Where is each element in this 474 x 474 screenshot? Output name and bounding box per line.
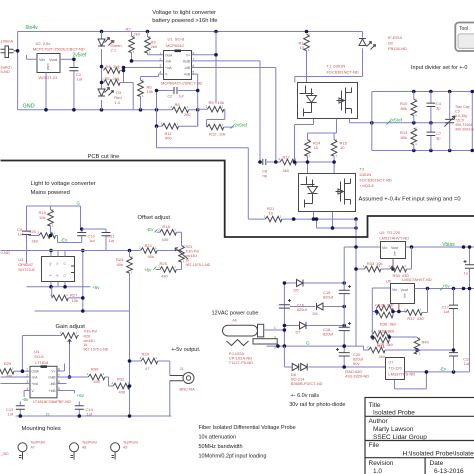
svg-text:1uf: 1uf: [77, 77, 83, 82]
svg-text:V+: V+: [52, 370, 56, 374]
svg-text:R37: R37: [407, 316, 415, 321]
svg-text:2k0: 2k0: [113, 64, 120, 69]
svg-text:T2: T2: [360, 167, 365, 172]
svg-text:430: 430: [161, 274, 168, 279]
capacitor C7: [430, 123, 432, 151]
wire T2 bottom row 1: [248, 212, 356, 220]
wire U4 pin2 pin3 long runs: [1, 377, 31, 384]
svg-text:Offset adjust: Offset adjust: [138, 215, 171, 221]
svg-text:Gain adjust: Gain adjust: [56, 324, 86, 330]
svg-text:1.4: 1.4: [114, 100, 120, 105]
svg-text:3k0: 3k0: [389, 322, 396, 327]
capacitor C8: [260, 161, 280, 163]
op-amp U4: [30, 366, 57, 398]
diode D5: [284, 282, 344, 284]
svg-text:-InB: -InB: [184, 66, 190, 70]
svg-text:FDC6301NCT-ND: FDC6301NCT-ND: [360, 178, 392, 183]
capacitor C9: [26, 206, 28, 264]
resistor R11: [162, 123, 179, 129]
svg-text:R30: R30: [91, 367, 99, 372]
svg-text:2k0: 2k0: [113, 76, 120, 81]
capacitor C10: [81, 228, 83, 243]
resistor R25: [160, 267, 177, 273]
capacitor C14: [78, 402, 80, 417]
wire +6v rail: [415, 288, 474, 290]
svg-text:1.0: 1.0: [373, 468, 382, 474]
svg-text:967-1575-1-ND: 967-1575-1-ND: [186, 263, 211, 267]
svg-text:+InA: +InA: [32, 382, 40, 386]
svg-text:-Ev: -Ev: [439, 367, 447, 372]
svg-text:Tool: Tool: [459, 26, 468, 32]
svg-text:2.1: 2.1: [111, 48, 117, 53]
svg-text:LM317AHVT-ND: LM317AHVT-ND: [402, 277, 432, 282]
wire raw+ vertical with caps: [343, 247, 345, 367]
svg-text:G: G: [46, 412, 50, 417]
svg-text:1uf: 1uf: [89, 238, 95, 243]
capacitor C11: [82, 229, 106, 251]
mounting hole TP1: [18, 443, 27, 460]
resistor R40: [414, 338, 420, 355]
svg-text:80k: 80k: [401, 106, 407, 111]
svg-text:2: 2: [160, 58, 162, 62]
svg-text:+6v: +6v: [442, 284, 450, 289]
resistor R18: [160, 230, 177, 236]
svg-text:8.5-30p: 8.5-30p: [455, 114, 467, 118]
svg-text:D2: D2: [388, 41, 394, 46]
svg-text:GND: GND: [46, 64, 50, 72]
svg-text:SOT23-8: SOT23-8: [18, 267, 35, 272]
svg-text:GND: GND: [23, 104, 35, 110]
wire U4 pin6 pin5: [57, 384, 75, 394]
resistor R15: [331, 140, 337, 157]
svg-text:T1 6301N: T1 6301N: [327, 64, 346, 69]
regulator U2: [27, 54, 61, 110]
svg-text:1uf: 1uf: [8, 412, 14, 417]
svg-text:3k0: 3k0: [388, 328, 395, 333]
transistor T1 dual fet: [298, 83, 358, 119]
capacitor C19: [453, 356, 455, 372]
svg-text:3p: 3p: [436, 106, 441, 111]
wire R22 row: [1, 250, 182, 252]
svg-text:10: 10: [300, 45, 305, 50]
resistor R41: [369, 347, 386, 353]
svg-text:R17: R17: [283, 155, 291, 160]
svg-text:Marty Lawson: Marty Lawson: [373, 426, 414, 433]
svg-text:R22: R22: [145, 243, 153, 248]
svg-text:490-2003-ND: 490-2003-ND: [455, 128, 474, 132]
regulator U6: [372, 288, 390, 312]
svg-text:U1 SO-8: U1 SO-8: [168, 37, 185, 42]
svg-text:+-5v output.: +-5v output.: [171, 347, 201, 353]
svg-text:LT1818CS8#PBF-ND: LT1818CS8#PBF-ND: [33, 399, 71, 404]
svg-text:80k: 80k: [401, 135, 407, 140]
svg-text:OutB: OutB: [48, 376, 55, 380]
svg-text:430: 430: [417, 316, 424, 321]
svg-text:R29: R29: [4, 361, 12, 366]
svg-text:2v5ref: 2v5ref: [73, 53, 88, 59]
svg-text:400: 400: [94, 379, 101, 384]
svg-text:V-: V-: [32, 389, 35, 393]
resistor R37: [406, 310, 423, 316]
svg-text:TestPoint: TestPoint: [31, 441, 46, 445]
svg-text:+6v: +6v: [144, 268, 152, 273]
connector J1 BNC: [170, 373, 194, 384]
svg-text:1uf: 1uf: [179, 95, 184, 99]
svg-text:10Mohm/0.2pf input loading: 10Mohm/0.2pf input loading: [199, 453, 267, 459]
svg-text:-Ev: -Ev: [147, 227, 155, 232]
svg-text:R9: R9: [209, 100, 215, 105]
svg-text:10k: 10k: [219, 132, 225, 137]
svg-text:R25: R25: [160, 261, 168, 266]
tool window: [455, 23, 474, 52]
svg-text:3k0: 3k0: [387, 303, 394, 308]
svg-text:+- 6.0v rails: +- 6.0v rails: [291, 393, 320, 399]
svg-text:Author: Author: [369, 418, 389, 425]
svg-text:90k: 90k: [117, 262, 123, 267]
svg-text:Trim Cap: Trim Cap: [455, 105, 470, 109]
svg-text:-InA: -InA: [165, 60, 172, 64]
svg-text:R5: R5: [105, 76, 111, 81]
svg-text:FB134-ND: FB134-ND: [388, 46, 407, 51]
svg-text:cm44U: cm44U: [186, 254, 198, 258]
wire long left vertical: [129, 311, 131, 416]
svg-text:TestPoint: TestPoint: [82, 441, 97, 445]
svg-text:PCB cut line: PCB cut line: [88, 154, 120, 160]
resistor R6: [138, 80, 144, 97]
svg-text:30v rail for photo-diode: 30v rail for photo-diode: [289, 402, 345, 408]
svg-text:1u: 1u: [464, 271, 468, 276]
wire divider bottom bus: [372, 150, 474, 152]
svg-text:7ZC3: 7ZC3: [455, 119, 464, 123]
wire Vbias rail: [406, 246, 474, 248]
svg-text:90k: 90k: [148, 254, 154, 259]
resistor R24: [127, 257, 133, 274]
svg-text:np: np: [263, 173, 268, 178]
capacitor C20: [336, 348, 350, 356]
svg-text:+vlQ3-8: +vlQ3-8: [360, 183, 375, 188]
svg-text:Mains powered: Mains powered: [31, 190, 70, 196]
trim capacitor C5: [449, 92, 451, 151]
svg-text:3k0: 3k0: [386, 342, 393, 347]
svg-text:Assumed +-0.4v Fet input swing: Assumed +-0.4v Fet input swing and =0: [359, 197, 461, 203]
svg-text:MCP6042: MCP6042: [166, 43, 185, 48]
svg-text:1uf: 1uf: [109, 238, 115, 243]
resistor R33: [364, 266, 381, 272]
svg-text:U6: U6: [386, 279, 392, 284]
svg-text:T1127-P5-ND: T1127-P5-ND: [229, 360, 253, 365]
svg-text:820uf: 820uf: [297, 307, 308, 312]
svg-text:Isolated Probe: Isolated Probe: [373, 410, 415, 417]
svg-text:A8: A8: [82, 446, 86, 450]
regulator U5: [344, 246, 380, 248]
resistor R5: [104, 80, 121, 86]
svg-text:3k0: 3k0: [283, 168, 290, 173]
svg-text:R20: R20: [29, 229, 37, 234]
connector J2 sleeve: [253, 339, 277, 344]
svg-text:Vin: Vin: [39, 57, 45, 62]
svg-text:430: 430: [162, 237, 169, 242]
capacitor C15: [339, 285, 351, 294]
svg-text:430: 430: [119, 390, 126, 395]
svg-text:10k: 10k: [376, 261, 382, 266]
wire U4 pin4: [24, 391, 30, 398]
svg-text:+InB: +InB: [49, 389, 56, 393]
svg-text:10: 10: [340, 145, 345, 150]
svg-text:G: G: [306, 341, 310, 346]
dual diode D8: [284, 346, 385, 367]
mounting hole TP2: [70, 443, 79, 460]
LED D1: [98, 38, 114, 47]
svg-text:1k: 1k: [186, 259, 190, 263]
svg-text:adj: adj: [403, 294, 407, 298]
capacitor C21: [464, 260, 474, 268]
wire U3 right vertical: [82, 251, 84, 312]
LED D2 infrared: [295, 32, 363, 83]
capacitor C4: [430, 92, 432, 123]
svg-text:50MHz bandwidth: 50MHz bandwidth: [199, 444, 243, 450]
resistor R17: [280, 159, 297, 165]
svg-text:LM317AHVT-ND: LM317AHVT-ND: [379, 236, 409, 241]
regulator U7: [386, 358, 405, 380]
capacitor C16: [279, 299, 291, 308]
svg-text:Fiber Isolated Differential Vo: Fiber Isolated Differential Voltage Prob…: [199, 425, 296, 431]
svg-text:SSEC Lidar Group: SSEC Lidar Group: [373, 434, 427, 441]
svg-text:R23: R23: [186, 245, 193, 249]
wire long run to section 2: [157, 126, 249, 219]
capacitor C13: [19, 402, 21, 417]
svg-text:+6v: +6v: [92, 285, 100, 290]
resistor R2: [129, 36, 135, 53]
wire GND bus: [18, 109, 198, 111]
resistor R28: [141, 358, 158, 364]
svg-text:-6v: -6v: [22, 397, 29, 402]
svg-text:C2: C2: [168, 95, 173, 99]
transistor T2 dual fet: [299, 174, 356, 212]
svg-text:D6: D6: [313, 311, 319, 316]
capacitor C18: [339, 322, 351, 331]
svg-text:OutA: OutA: [165, 54, 173, 58]
svg-text:Mounting holes: Mounting holes: [22, 426, 61, 432]
wire +6v rail under U3: [27, 282, 91, 287]
svg-text:V+: V+: [186, 54, 190, 58]
svg-text:1uf: 1uf: [443, 309, 449, 314]
wire top bus: [18, 31, 363, 33]
svg-text:_250: _250: [0, 452, 9, 456]
wire jack pin 1: [264, 283, 285, 346]
svg-text:R8: R8: [175, 102, 181, 107]
svg-text:MCP6042T-I/SNCT-ND: MCP6042T-I/SNCT-ND: [161, 81, 202, 86]
svg-text:-InA: -InA: [32, 376, 39, 380]
svg-text:File: File: [369, 442, 380, 449]
12VAC wall cube drawing: [223, 324, 264, 345]
svg-text:R12: R12: [209, 132, 217, 137]
svg-text:-InB: -InB: [50, 382, 56, 386]
svg-text:Vout: Vout: [391, 246, 398, 250]
svg-text:R34: R34: [393, 273, 401, 278]
wire G rail power: [267, 346, 364, 350]
svg-text:3k0: 3k0: [379, 354, 386, 359]
svg-text:U2 2.5v: U2 2.5v: [36, 41, 51, 46]
svg-text:R35: R35: [378, 303, 386, 308]
resistor R20: [39, 233, 56, 239]
resistor R39: [373, 337, 390, 343]
svg-text:C5: C5: [455, 110, 460, 114]
svg-text:2n: 2n: [49, 263, 53, 267]
svg-text:490-T1504: 490-T1504: [455, 123, 472, 127]
resistor R21: [265, 216, 282, 222]
resistor R35: [377, 305, 394, 311]
svg-text:U7: U7: [388, 360, 394, 365]
svg-text:2k0: 2k0: [134, 32, 141, 37]
svg-text:D5: D5: [294, 288, 300, 293]
svg-text:A7: A7: [31, 446, 35, 450]
resistor R14: [305, 140, 311, 157]
svg-text:Vout: Vout: [401, 288, 408, 292]
resistor R19: [48, 210, 54, 227]
svg-text:6-13-2016: 6-13-2016: [434, 468, 464, 474]
junctions on top bus: [100, 30, 104, 34]
trim pot R26: [61, 333, 78, 339]
svg-text:2v5ref: 2v5ref: [235, 123, 248, 128]
title block frame: [365, 398, 474, 474]
svg-text:Vbias: Vbias: [442, 242, 455, 248]
svg-text:R36: R36: [380, 322, 388, 327]
svg-text:IF-E910: IF-E910: [388, 35, 403, 40]
svg-text:493-1820-ND: 493-1820-ND: [345, 374, 369, 379]
svg-text:R32: R32: [117, 377, 125, 382]
svg-text:2k0: 2k0: [32, 239, 39, 244]
LED D3: [98, 88, 114, 97]
wire U6 adj: [398, 304, 400, 312]
battery connector B1: [1, 46, 18, 58]
wire T2 bottom row 2: [317, 212, 357, 229]
resistor R13: [411, 128, 417, 145]
svg-text:R41: R41: [378, 344, 386, 349]
capacitor C17: [453, 289, 455, 353]
wire opamp input rows: [124, 55, 164, 80]
wire divider top bus: [372, 91, 474, 93]
svg-text:D7: D7: [296, 330, 302, 335]
svg-text:10k: 10k: [39, 215, 45, 220]
svg-text:Vout: Vout: [49, 57, 58, 62]
svg-text:6301N: 6301N: [360, 172, 372, 177]
wire divider left vertical: [371, 92, 373, 151]
svg-text:6to4v: 6to4v: [26, 25, 39, 31]
svg-text:Voltage to light converter: Voltage to light converter: [152, 10, 216, 16]
wire T2 to U5 vertical: [355, 219, 357, 346]
svg-text:R28: R28: [142, 352, 150, 357]
wire -Ev rail: [405, 371, 470, 373]
svg-text:10: 10: [314, 145, 319, 150]
svg-text:+InA: +InA: [165, 66, 173, 70]
resistor R32: [113, 383, 130, 389]
svg-text:OutA: OutA: [32, 370, 40, 374]
svg-text:1: 1: [274, 326, 276, 330]
svg-text:1k: 1k: [84, 343, 88, 347]
svg-text:LT1818: LT1818: [35, 360, 49, 365]
svg-text:R2: R2: [126, 27, 132, 32]
resistor R34: [390, 266, 407, 272]
svg-text:R38: R38: [378, 328, 386, 333]
wire G rail: [27, 206, 81, 228]
svg-text:MCP1702T-2502E/CBCT-ND: MCP1702T-2502E/CBCT-ND: [33, 47, 85, 52]
svg-text:Vin: Vin: [392, 288, 397, 292]
svg-text:BNC-RA: BNC-RA: [180, 387, 196, 392]
svg-text:820uf: 820uf: [323, 295, 334, 300]
svg-text:4: 4: [160, 71, 162, 75]
svg-text:Vin: Vin: [382, 246, 387, 250]
resistor R29: [0, 368, 14, 374]
svg-text:10x attenuation: 10x attenuation: [199, 434, 237, 440]
svg-text:400: 400: [165, 136, 172, 141]
wire LED chain: [101, 32, 103, 110]
wire U4 pin8: [57, 364, 65, 372]
op-amp U3: [42, 257, 75, 282]
svg-text:H:\Isolated Probe\Isolated P: H:\Isolated Probe\Isolated P: [403, 451, 474, 458]
svg-text:3p: 3p: [436, 136, 441, 141]
svg-text:A6: A6: [232, 319, 236, 323]
svg-text:430: 430: [6, 373, 13, 378]
svg-text:10k: 10k: [72, 298, 78, 303]
svg-text:12VAC power cube: 12VAC power cube: [212, 311, 259, 317]
svg-text:Light to voltage converter: Light to voltage converter: [31, 181, 96, 187]
svg-text:V-: V-: [165, 73, 168, 77]
svg-text:Date: Date: [430, 460, 444, 467]
svg-text:B360B-FDICT-ND: B360B-FDICT-ND: [291, 381, 323, 386]
svg-text:Input divider set for +-0: Input divider set for +-0: [411, 65, 467, 71]
capacitor C1: [73, 59, 75, 110]
PCB cut line: [1, 161, 474, 238]
resistor R3: [145, 37, 151, 54]
svg-text:100mA: 100mA: [1, 39, 14, 44]
svg-text:3: 3: [160, 64, 162, 68]
svg-text:battery powered >16h life: battery powered >16h life: [152, 18, 217, 24]
wire bottom run: [35, 310, 130, 312]
resistor R36: [377, 312, 394, 318]
resistor R1: [304, 34, 310, 51]
svg-text:A9: A9: [123, 446, 127, 450]
svg-text:R33: R33: [367, 261, 375, 266]
wire bottom G rail: [16, 415, 172, 417]
svg-text:47: 47: [145, 366, 150, 371]
resistor R12: [207, 124, 224, 130]
svg-text:FDC6301NCT-ND: FDC6301NCT-ND: [327, 70, 359, 75]
junctions on GND bus: [44, 108, 48, 112]
trim pot R23: [179, 246, 185, 263]
wire under T1: [295, 119, 337, 163]
svg-text:10: 10: [269, 211, 274, 216]
svg-text:Trim-Pot: Trim-Pot: [186, 250, 200, 254]
resistor R4: [104, 68, 121, 74]
svg-text:TO-220: TO-220: [388, 366, 402, 371]
wire U3 top stubs: [51, 251, 65, 257]
svg-text:1: 1: [160, 52, 162, 56]
wire opamp right rows: [192, 32, 276, 163]
svg-text:2k0: 2k0: [151, 44, 158, 49]
svg-text:+6v: +6v: [77, 393, 85, 398]
resistor R10: [411, 99, 417, 116]
svg-text:10k: 10k: [218, 100, 224, 105]
svg-text:1uf: 1uf: [18, 231, 24, 236]
svg-text:5-ND: 5-ND: [1, 69, 10, 74]
svg-text:G: G: [77, 201, 81, 206]
svg-text:R27: R27: [70, 293, 78, 298]
svg-text:2k0: 2k0: [184, 112, 191, 117]
svg-text:adj: adj: [393, 252, 397, 256]
svg-text:OutB: OutB: [183, 60, 190, 64]
resistor R8: [172, 107, 189, 113]
mounting hole TP3: [111, 443, 120, 460]
